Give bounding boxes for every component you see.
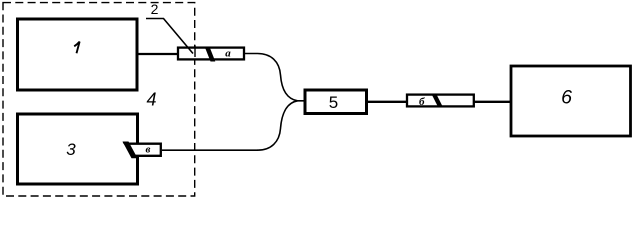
wire: top curve from box a to junction: [244, 54, 304, 101]
svg-text:2: 2: [151, 1, 159, 17]
svg-text:6: 6: [561, 87, 572, 109]
svg-text:а: а: [225, 48, 231, 60]
wire box б to block 6: [474, 101, 511, 103]
svg-text:5: 5: [329, 93, 338, 112]
leader line from label 2: [146, 19, 193, 54]
block 5: [305, 90, 367, 114]
attenuator box б: [407, 94, 474, 108]
svg-text:б: б: [419, 96, 425, 108]
svg-text:3: 3: [66, 140, 76, 159]
wire: from box в to bottom curve: [162, 149, 258, 151]
svg-text:4: 4: [146, 90, 156, 110]
wire block5 to box б: [366, 101, 407, 103]
slanted box в on block 3: [123, 142, 161, 159]
block 3: [18, 114, 138, 184]
block 6: [511, 66, 631, 136]
svg-text:в: в: [146, 144, 151, 156]
block 1: [18, 19, 138, 90]
dashed enclosure segment crossing box а: [194, 45, 196, 57]
wire block1 to box a: [137, 53, 178, 55]
dashed enclosure 4: [3, 3, 195, 196]
wire: bottom curve to junction: [258, 101, 298, 150]
attenuator box а: [178, 47, 244, 62]
